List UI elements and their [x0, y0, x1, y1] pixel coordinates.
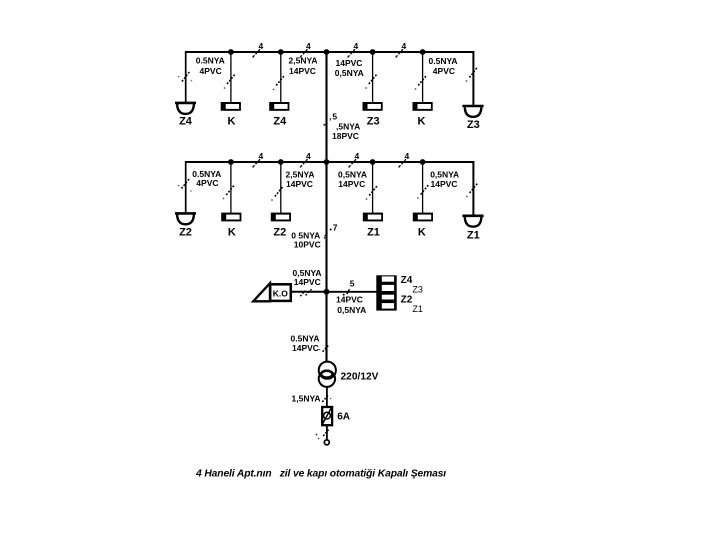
svg-text:4: 4 — [402, 41, 407, 51]
svg-text:K: K — [418, 227, 426, 239]
svg-text:,5: ,5 — [329, 111, 338, 121]
conductor count 5 slash on terminal-strip wire — [343, 279, 355, 296]
conductor count 4, bus 2 segment 1 — [253, 151, 264, 168]
svg-text:Z2: Z2 — [401, 294, 413, 305]
conductor slashes on K.O wire — [300, 289, 312, 296]
wire riser trunk (bus1 to transformer) — [325, 52, 327, 362]
junction on bus 1 at bell Z3 drop — [370, 49, 376, 55]
svg-text:4: 4 — [306, 151, 311, 161]
label Z2 (bell box) — [273, 227, 286, 239]
conductor slash on Z1 right drop wire — [466, 184, 478, 198]
svg-text:Z4: Z4 — [273, 116, 287, 128]
svg-text:4 Haneli Apt.nın zil ve kapı: 4 Haneli Apt.nın zil ve kapı otomatiği K… — [195, 469, 446, 480]
svg-text:14PVC: 14PVC — [336, 295, 363, 305]
svg-text:0,5NYA: 0,5NYA — [337, 305, 366, 315]
conductor count 7 slash on riser below bus 2 — [324, 222, 338, 238]
bell Z4 (flat 4 doorbell, top-left) — [175, 103, 196, 114]
conductor count 4, bus 1 segment 1 — [253, 41, 264, 58]
wire drop to bell box Z1 (row 2) — [372, 162, 374, 213]
transformer TR 220/12V (bell transformer) — [319, 362, 336, 387]
bell box Z3 (row 1) — [363, 102, 383, 111]
svg-text:0.5NYA: 0.5NYA — [196, 56, 225, 66]
button K (row 2 right) — [413, 213, 433, 222]
conductor slash on riser above transformer — [319, 346, 329, 352]
svg-text:Z3: Z3 — [367, 116, 380, 128]
conductor slash on K right drop wire (row 2) — [417, 185, 429, 199]
conductor slash on supply wire — [316, 430, 329, 440]
label Z3 (bell) — [467, 119, 480, 131]
fuse F1 6A (sigorta) — [322, 407, 332, 425]
svg-text:Z1: Z1 — [367, 227, 380, 239]
cable label 0,5NYA 14PVC (bus2 right-middle) — [338, 170, 367, 189]
svg-text:4: 4 — [405, 151, 410, 161]
terminal label Z2 — [401, 294, 413, 305]
svg-text:10PVC: 10PVC — [294, 240, 321, 250]
label Z1 (bell) — [467, 229, 480, 241]
junction on bus 1 at button K drop (right) — [420, 49, 426, 55]
bell box Z1 (row 2) — [363, 213, 383, 222]
button K (row 1, flat 4 door button) — [221, 102, 241, 111]
wire from K.O to riser junction — [292, 291, 327, 293]
value label 6A (fuse) — [337, 411, 350, 422]
conductor slash on Z2 box drop wire — [271, 187, 283, 201]
conductor count 4, bus 1 segment 3 — [348, 41, 359, 58]
conductor count 4, bus 2 segment 4 — [399, 151, 410, 168]
conductor count 4, bus 2 segment 2 — [300, 151, 311, 168]
svg-text:0.5NYA: 0.5NYA — [291, 334, 320, 344]
label Z4 (bell box) — [273, 116, 287, 128]
svg-text:4: 4 — [354, 41, 359, 51]
conductor slash on Z4 drop wire — [178, 72, 193, 82]
door opener K.O (kapi otomatigi) — [253, 283, 291, 301]
terminal label Z1 — [412, 304, 423, 314]
svg-text:K: K — [418, 116, 426, 128]
conductor slash on Z3 right drop wire — [466, 68, 478, 82]
svg-text:4PVC: 4PVC — [196, 178, 218, 188]
cable label 0.5NYA 4PVC (bus2 far left) — [192, 169, 221, 188]
conductor slash on Z1 box drop wire — [366, 186, 377, 200]
label Z3 (bell box) — [367, 116, 380, 128]
conductor slash on Z2 drop wire — [178, 179, 192, 192]
svg-text:Z2: Z2 — [179, 227, 192, 239]
label K (button row 1 left) — [228, 116, 236, 128]
wire transformer to fuse — [326, 387, 328, 408]
svg-text:Z3: Z3 — [467, 119, 480, 131]
label K (button row 1 right) — [418, 116, 426, 128]
bell Z1 (flat 1 doorbell, right) — [462, 216, 483, 227]
cable label 0.5NYA 14PVC (riser above transformer) — [291, 334, 320, 354]
label Z1 (bell box) — [367, 227, 380, 239]
wire drop to button K (row 1 right) — [422, 52, 424, 103]
wire drop to bell Z1 (right end of bus 2) — [472, 161, 474, 216]
label K (button row 2 right) — [418, 227, 426, 239]
cable label 0,5NYA 14PVC (bus2 far right) — [430, 170, 459, 189]
junction on bus 2 at bell box Z2 drop — [278, 159, 284, 165]
svg-text:4: 4 — [355, 151, 360, 161]
wire drop to bell box Z4 (row 1) — [280, 52, 282, 103]
wire drop to bell box Z2 (row 2) — [280, 162, 282, 213]
cable label 0,5NYA 14PVC (K.O wire) — [293, 268, 322, 287]
bell box Z2 (row 2) — [271, 213, 291, 222]
svg-text:7: 7 — [333, 222, 338, 232]
wire drop to button K (row 2 right) — [422, 162, 424, 213]
svg-text:K.O: K.O — [273, 288, 289, 298]
conductor count 4, bus 1 segment 2 — [300, 41, 311, 58]
conductor slash on K right drop wire (row 1) — [415, 76, 426, 90]
svg-text:4: 4 — [306, 41, 311, 51]
svg-text:14PVC: 14PVC — [294, 277, 321, 287]
junction of riser, K.O wire and terminal-strip wire — [324, 289, 330, 295]
junction on bus 2 at bell box Z1 drop — [370, 159, 376, 165]
conductor slash on Z3 drop wire — [365, 75, 377, 89]
svg-text:14PVC: 14PVC — [431, 179, 458, 189]
wire fuse to supply terminal — [326, 426, 328, 440]
svg-text:2,5NYA: 2,5NYA — [289, 56, 318, 66]
bell Z3 (flat 3 doorbell, top-right) — [462, 106, 483, 117]
wire drop to bell box Z3 (row 1) — [372, 52, 374, 103]
svg-text:14PVC: 14PVC — [336, 58, 363, 68]
wire drop to button K (row 1) — [230, 52, 232, 103]
svg-text:Z4: Z4 — [401, 275, 413, 286]
svg-text:14PVC: 14PVC — [286, 179, 313, 189]
conductor slash on Z4 box drop wire — [273, 76, 284, 90]
svg-text:0.5NYA: 0.5NYA — [429, 56, 458, 66]
junction on bus 2 at riser crossing — [324, 159, 330, 165]
cable label 2,5NYA 14PVC (bus1 left-middle) — [289, 56, 318, 76]
svg-text:4PVC: 4PVC — [433, 66, 455, 76]
svg-text:18PVC: 18PVC — [332, 131, 359, 141]
bell Z2 (flat 2 doorbell, left) — [175, 213, 196, 224]
svg-text:,5NYA: ,5NYA — [336, 122, 360, 132]
button K (row 2 left) — [221, 213, 241, 222]
wire bus 2 (second floor distribution line) — [185, 161, 474, 163]
wire drop to bell Z2 (left end of bus 2) — [185, 161, 187, 213]
wire bus 1 (top floor distribution line) — [185, 51, 474, 53]
junction on bus 2 at button K drop (right) — [420, 159, 426, 165]
svg-text:Z1: Z1 — [412, 304, 423, 314]
svg-text:K: K — [228, 116, 236, 128]
svg-text:Z3: Z3 — [412, 285, 423, 295]
conductor count 5 on riser below bus 1 — [323, 111, 338, 125]
svg-text:220/12V: 220/12V — [341, 372, 379, 383]
terminal label Z3 — [412, 285, 423, 295]
cable label 2,5NYA 14PVC (bus2 left-middle) — [286, 170, 315, 189]
svg-text:14PVC: 14PVC — [292, 343, 319, 353]
svg-text:4: 4 — [259, 151, 264, 161]
cable label 14PVC 0,5NYA (terminal-strip wire) — [336, 295, 366, 316]
label K (button row 2 left) — [228, 227, 236, 239]
supply terminal (mains connection point) — [324, 440, 329, 445]
cable label 1,5NYA (fuse feed) — [292, 394, 321, 404]
button K (row 1 right) — [413, 102, 433, 111]
junction on bus 1 at riser (trunk) — [324, 49, 330, 55]
conductor slash on transformer-fuse wire — [322, 395, 331, 402]
cable label ,5NYA 18PVC (riser) — [332, 122, 360, 142]
svg-text:1,5NYA: 1,5NYA — [292, 394, 321, 404]
conductor slash on K drop wire (row 2) — [223, 186, 234, 200]
svg-text:Z1: Z1 — [467, 229, 480, 241]
wire drop to bell Z4 (left end of bus 1) — [185, 51, 187, 103]
terminal label Z4 — [401, 275, 413, 286]
conductor count 4, bus 2 segment 3 — [349, 151, 360, 168]
value label 220/12V (transformer) — [341, 372, 379, 383]
bell box Z4 (row 1) — [269, 102, 289, 111]
conductor count 4, bus 1 segment 4 — [396, 41, 407, 58]
cable label 14PVC 0,5NYA (bus1 right-middle) — [335, 58, 364, 78]
terminal strip (floor connector block) — [376, 275, 396, 310]
svg-text:0,5NYA: 0,5NYA — [335, 68, 364, 78]
wire from riser junction to terminal strip — [327, 291, 377, 293]
wire drop to bell Z3 (right end of bus 1) — [472, 51, 474, 106]
svg-text:4: 4 — [259, 41, 264, 51]
cable label 0 5NYA 10PVC (riser below bus 2) — [291, 231, 320, 250]
svg-text:K: K — [228, 227, 236, 239]
junction on bus 1 at bell Z4 drop — [278, 49, 284, 55]
svg-text:5: 5 — [350, 279, 355, 289]
svg-text:14PVC: 14PVC — [289, 66, 316, 76]
cable label 0.5NYA 4PVC (bus1 far right) — [429, 56, 458, 76]
cable label 0.5NYA 4PVC (bus1 far left) — [196, 56, 225, 76]
svg-text:Z4: Z4 — [179, 116, 193, 128]
caption: schema title — [195, 469, 446, 480]
svg-text:4PVC: 4PVC — [200, 66, 222, 76]
junction on bus 2 at button K drop — [228, 159, 234, 165]
label Z2 (bell) — [179, 227, 192, 239]
svg-text:14PVC: 14PVC — [338, 179, 365, 189]
svg-text:Z2: Z2 — [273, 227, 286, 239]
label Z4 (bell) — [179, 116, 193, 128]
wire drop to button K (row 2) — [230, 162, 232, 213]
junction on bus 1 at button K drop — [228, 49, 234, 55]
conductor slash on K drop wire (row 1) — [224, 75, 235, 89]
svg-text:6A: 6A — [337, 411, 350, 422]
